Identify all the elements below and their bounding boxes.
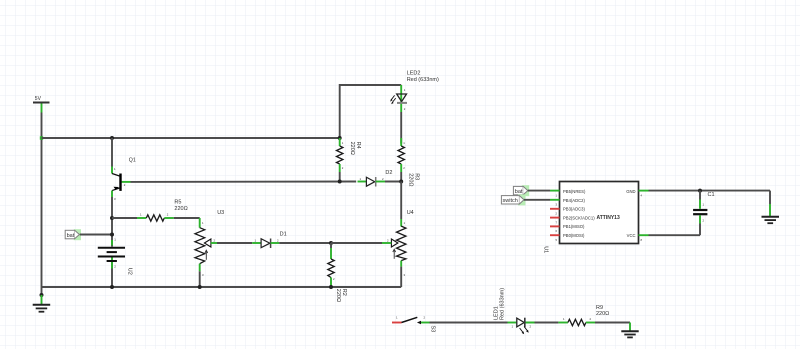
- wire U3 wiper to D1: [211, 242, 252, 244]
- svg-text:U1: U1: [543, 246, 549, 253]
- pin stub PB1 (red, pin 6): [550, 226, 560, 233]
- svg-text:U4: U4: [407, 210, 414, 216]
- svg-text:S3: S3: [429, 326, 435, 333]
- svg-text:Red (633nm): Red (633nm): [500, 288, 506, 320]
- svg-text:bat: bat: [515, 189, 523, 195]
- node junction base rail / R3 / U4: [399, 180, 403, 184]
- node junction bottom rail / U2: [110, 285, 114, 289]
- svg-text:PB1(MISO): PB1(MISO): [563, 224, 585, 229]
- ground (left): [33, 293, 51, 312]
- wire bat to Q1 column: [80, 234, 112, 236]
- svg-text:D2: D2: [385, 170, 392, 176]
- node junction bottom rail / R2: [329, 285, 333, 289]
- svg-text:220Ω: 220Ω: [408, 173, 414, 186]
- ground (bottom): [621, 331, 638, 337]
- node junction Q1 emitter / R5: [110, 216, 114, 220]
- node junction bottom rail / U3: [198, 285, 202, 289]
- wire GND pin 4 to C1/ground: [639, 191, 771, 198]
- svg-text:220Ω: 220Ω: [596, 311, 609, 317]
- node junction base rail / R4: [338, 180, 342, 184]
- pin stub PB3 (red, pin 2): [550, 209, 560, 216]
- svg-text:Q1: Q1: [129, 158, 136, 164]
- svg-text:switch: switch: [503, 198, 518, 204]
- net label bat (at IC): [513, 185, 529, 196]
- wire to right ground: [769, 191, 771, 216]
- svg-text:GND: GND: [626, 189, 635, 194]
- LED1: [493, 288, 534, 334]
- net label switch (at IC): [501, 194, 525, 205]
- svg-text:Red (633nm): Red (633nm): [407, 77, 439, 83]
- svg-text:5V: 5V: [35, 96, 42, 102]
- potentiometer U3: [195, 210, 224, 287]
- node junction wiper rail / R2: [329, 241, 333, 245]
- wire R3 node down to U4: [400, 182, 402, 227]
- svg-text:C1: C1: [708, 192, 715, 198]
- svg-text:PB4(ADC2): PB4(ADC2): [563, 198, 585, 203]
- resistor R3: [398, 141, 420, 186]
- svg-text:PB5(NRES): PB5(NRES): [563, 189, 586, 194]
- wire LED2 anode feed: [340, 85, 402, 138]
- svg-text:220Ω: 220Ω: [335, 289, 341, 302]
- wire Q1 base rail: [122, 181, 357, 183]
- svg-text:D1: D1: [280, 232, 287, 238]
- wire LED2 cathode to R3: [400, 104, 402, 146]
- node junction C1 top: [698, 189, 702, 193]
- diode D1: [252, 232, 331, 249]
- svg-text:U3: U3: [217, 210, 224, 216]
- wire VCC pin 8 loop: [639, 235, 701, 242]
- svg-text:PB2(SCK/ADC1): PB2(SCK/ADC1): [563, 215, 595, 220]
- wire switch to LED1: [430, 322, 508, 324]
- node junction top rail / R4: [338, 136, 342, 140]
- svg-text:PB0(MOSI): PB0(MOSI): [563, 233, 585, 238]
- power flag 5V: [33, 96, 50, 103]
- potentiometer U4: [387, 210, 414, 287]
- wire switch to PB4 pin 3: [524, 200, 560, 207]
- svg-text:R5: R5: [174, 200, 181, 206]
- wire LED1 to R9: [535, 322, 568, 324]
- battery U2: [98, 238, 133, 275]
- svg-text:LED2: LED2: [407, 71, 421, 77]
- resistor R5: [112, 200, 200, 222]
- pin stub PB2 (red, pin 7): [550, 218, 560, 225]
- svg-text:LED1: LED1: [493, 306, 499, 320]
- LED2: [390, 71, 439, 112]
- wire bat to PB5 pin 1: [528, 191, 560, 198]
- transistor Q1: [112, 138, 136, 287]
- wire 5V vertical rail: [40, 104, 43, 296]
- resistor R2: [328, 243, 347, 302]
- svg-text:220Ω: 220Ω: [174, 206, 187, 212]
- svg-text:VCC: VCC: [627, 233, 636, 238]
- svg-text:ATTINY13: ATTINY13: [597, 215, 620, 221]
- wire top rail to R4: [42, 137, 340, 139]
- svg-text:U2: U2: [126, 268, 132, 275]
- net label bat (left): [65, 229, 81, 240]
- capacitor C1: [693, 191, 714, 236]
- IC U1 ATTINY13: [543, 182, 639, 254]
- wire R9 to ground: [629, 323, 631, 331]
- svg-text:bat: bat: [67, 233, 75, 239]
- diode D2: [358, 170, 402, 187]
- node junction top rail / Q1 column: [110, 136, 114, 140]
- wire bottom rail: [42, 286, 402, 288]
- svg-text:PB3(ADC3): PB3(ADC3): [563, 207, 585, 212]
- node junction bat / battery: [110, 233, 114, 237]
- svg-text:220Ω: 220Ω: [349, 142, 355, 155]
- wire wiper rail to U4 wiper: [331, 242, 391, 244]
- pin stub PB0 (red, pin 5): [550, 235, 560, 242]
- ground (right): [762, 217, 780, 224]
- resistor R4: [337, 138, 362, 182]
- switch S3: [392, 316, 435, 333]
- resistor R9: [563, 305, 630, 326]
